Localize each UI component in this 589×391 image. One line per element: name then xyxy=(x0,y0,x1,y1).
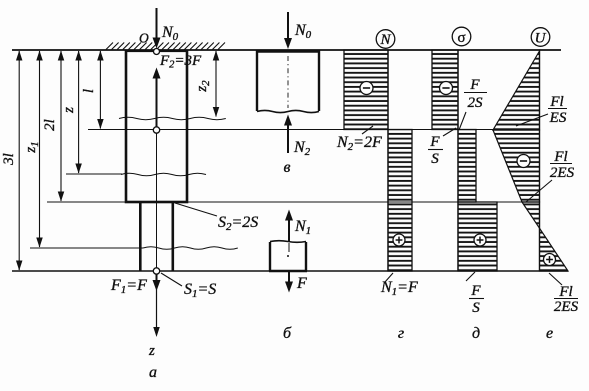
svg-text:S: S xyxy=(472,300,480,316)
svg-text:S2=2S: S2=2S xyxy=(218,214,258,233)
svg-text:б: б xyxy=(283,325,292,342)
bar a centerline xyxy=(156,131,158,271)
wire level line z=2l xyxy=(47,201,526,203)
dimension 3l xyxy=(18,51,20,270)
N diagram positive block N1 xyxy=(388,130,412,272)
svg-text:2S: 2S xyxy=(468,95,484,111)
svg-text:г: г xyxy=(398,325,404,342)
wire top fixed-support line xyxy=(12,49,561,51)
force N0 arrow on bar a xyxy=(156,8,158,45)
svg-text:N2=2F: N2=2F xyxy=(336,134,382,153)
svg-text:2ES: 2ES xyxy=(554,299,579,315)
svg-text:в: в xyxy=(284,159,291,176)
svg-text:Fl: Fl xyxy=(549,94,563,110)
bar a upper wide section 2S xyxy=(126,51,187,202)
leader S2=2S xyxy=(175,203,217,216)
svg-text:F: F xyxy=(429,134,440,150)
piece b center dot xyxy=(287,255,289,257)
dimension 2l xyxy=(60,51,62,201)
U diagram middle region xyxy=(493,130,540,202)
svg-text:Fl: Fl xyxy=(558,284,572,300)
z axis arrow xyxy=(156,286,158,328)
circled U heading xyxy=(531,28,550,47)
svg-text:O: O xyxy=(139,31,149,46)
node at bar bottom xyxy=(153,268,159,274)
force N2 arrow on piece v xyxy=(287,124,289,153)
node at z=l xyxy=(153,127,159,133)
svg-text:σ: σ xyxy=(457,30,465,46)
dimension z xyxy=(78,51,80,173)
sigma diagram lower positive block xyxy=(458,202,497,271)
svg-text:F: F xyxy=(470,283,481,299)
svg-text:U: U xyxy=(535,31,547,47)
U diagram upper triangle xyxy=(493,51,540,130)
piece b inner centerline xyxy=(288,243,290,252)
svg-text:F: F xyxy=(296,275,307,292)
leader F/S upper xyxy=(443,128,456,136)
dimension z1 xyxy=(39,51,41,247)
circled sigma heading xyxy=(452,27,471,46)
sigma diagram axis xyxy=(457,50,459,271)
svg-text:F1=F: F1=F xyxy=(110,277,147,296)
piece v outline xyxy=(257,52,319,111)
svg-text:Fl: Fl xyxy=(553,149,567,165)
force F arrow on piece b xyxy=(288,272,290,284)
wavy cut line z2 xyxy=(119,117,226,119)
circled N heading xyxy=(376,30,395,49)
sigma diagram negative block xyxy=(432,50,458,130)
tick line at z level xyxy=(66,173,122,175)
svg-text:l: l xyxy=(81,89,97,93)
svg-text:д: д xyxy=(472,325,480,342)
U diagram lower negative triangle xyxy=(522,202,540,228)
piece v wavy bottom edge xyxy=(257,110,319,112)
leader Fl/2ES bottom xyxy=(549,273,562,285)
piece v axis dash-dot xyxy=(287,56,289,108)
wire level line z=l xyxy=(88,129,540,131)
svg-text:F: F xyxy=(469,77,480,93)
piece b outline xyxy=(270,242,306,271)
N diagram negative block N2 xyxy=(344,50,388,130)
svg-text:3l: 3l xyxy=(1,153,17,166)
force N1 arrow on piece b xyxy=(288,219,290,241)
U diagram lower positive triangle xyxy=(540,228,569,271)
svg-text:ES: ES xyxy=(549,110,567,126)
svg-text:N: N xyxy=(379,32,391,48)
svg-text:F2=3F: F2=3F xyxy=(159,53,202,71)
bar a lower narrow section S xyxy=(140,202,173,271)
leader Fl/2ES middle xyxy=(526,180,552,202)
wavy cut line z xyxy=(121,173,206,176)
leader S1=S xyxy=(161,273,182,286)
tick line at z1 level xyxy=(30,247,143,249)
svg-text:S1=S: S1=S xyxy=(184,281,216,300)
force F1 arrow (downward) xyxy=(156,274,158,282)
svg-text:z: z xyxy=(61,107,77,114)
svg-text:2ES: 2ES xyxy=(550,165,575,181)
wire bottom level line z=3l xyxy=(12,270,568,272)
leader Fl/ES xyxy=(516,114,548,126)
node O circle xyxy=(154,49,160,55)
sigma diagram middle positive block xyxy=(458,130,476,203)
force N0 arrow on piece v xyxy=(287,12,289,44)
dimension z2 xyxy=(215,51,217,117)
leader N1=F xyxy=(385,273,393,282)
N diagram axis xyxy=(387,50,389,271)
svg-text:N1=F: N1=F xyxy=(380,279,418,298)
svg-text:z: z xyxy=(148,343,155,359)
dimension l xyxy=(99,51,101,129)
wavy cut line z1 xyxy=(143,247,238,250)
leader F/2S xyxy=(459,112,466,130)
fixed support hatching xyxy=(106,43,225,50)
svg-text:а: а xyxy=(149,364,157,381)
svg-text:е: е xyxy=(546,325,553,342)
U diagram axis xyxy=(539,50,541,271)
svg-text:S: S xyxy=(431,151,439,167)
leader F/S lower xyxy=(466,272,475,281)
piece b wavy top edge xyxy=(270,241,306,243)
force F2 arrow (upward) xyxy=(156,78,158,129)
svg-text:2l: 2l xyxy=(42,119,58,131)
leader N2=2F xyxy=(362,126,373,134)
